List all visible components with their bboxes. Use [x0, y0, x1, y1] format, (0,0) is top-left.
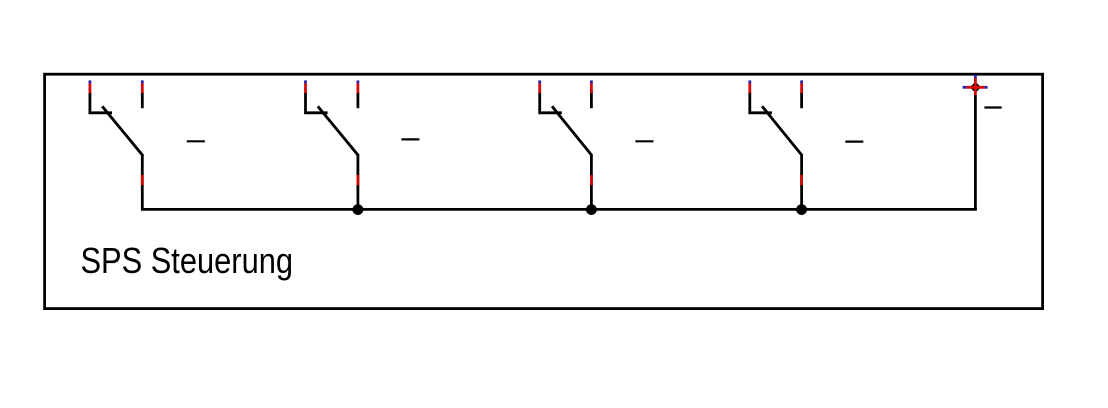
svg-text:SPS Steuerung: SPS Steuerung [81, 240, 294, 281]
